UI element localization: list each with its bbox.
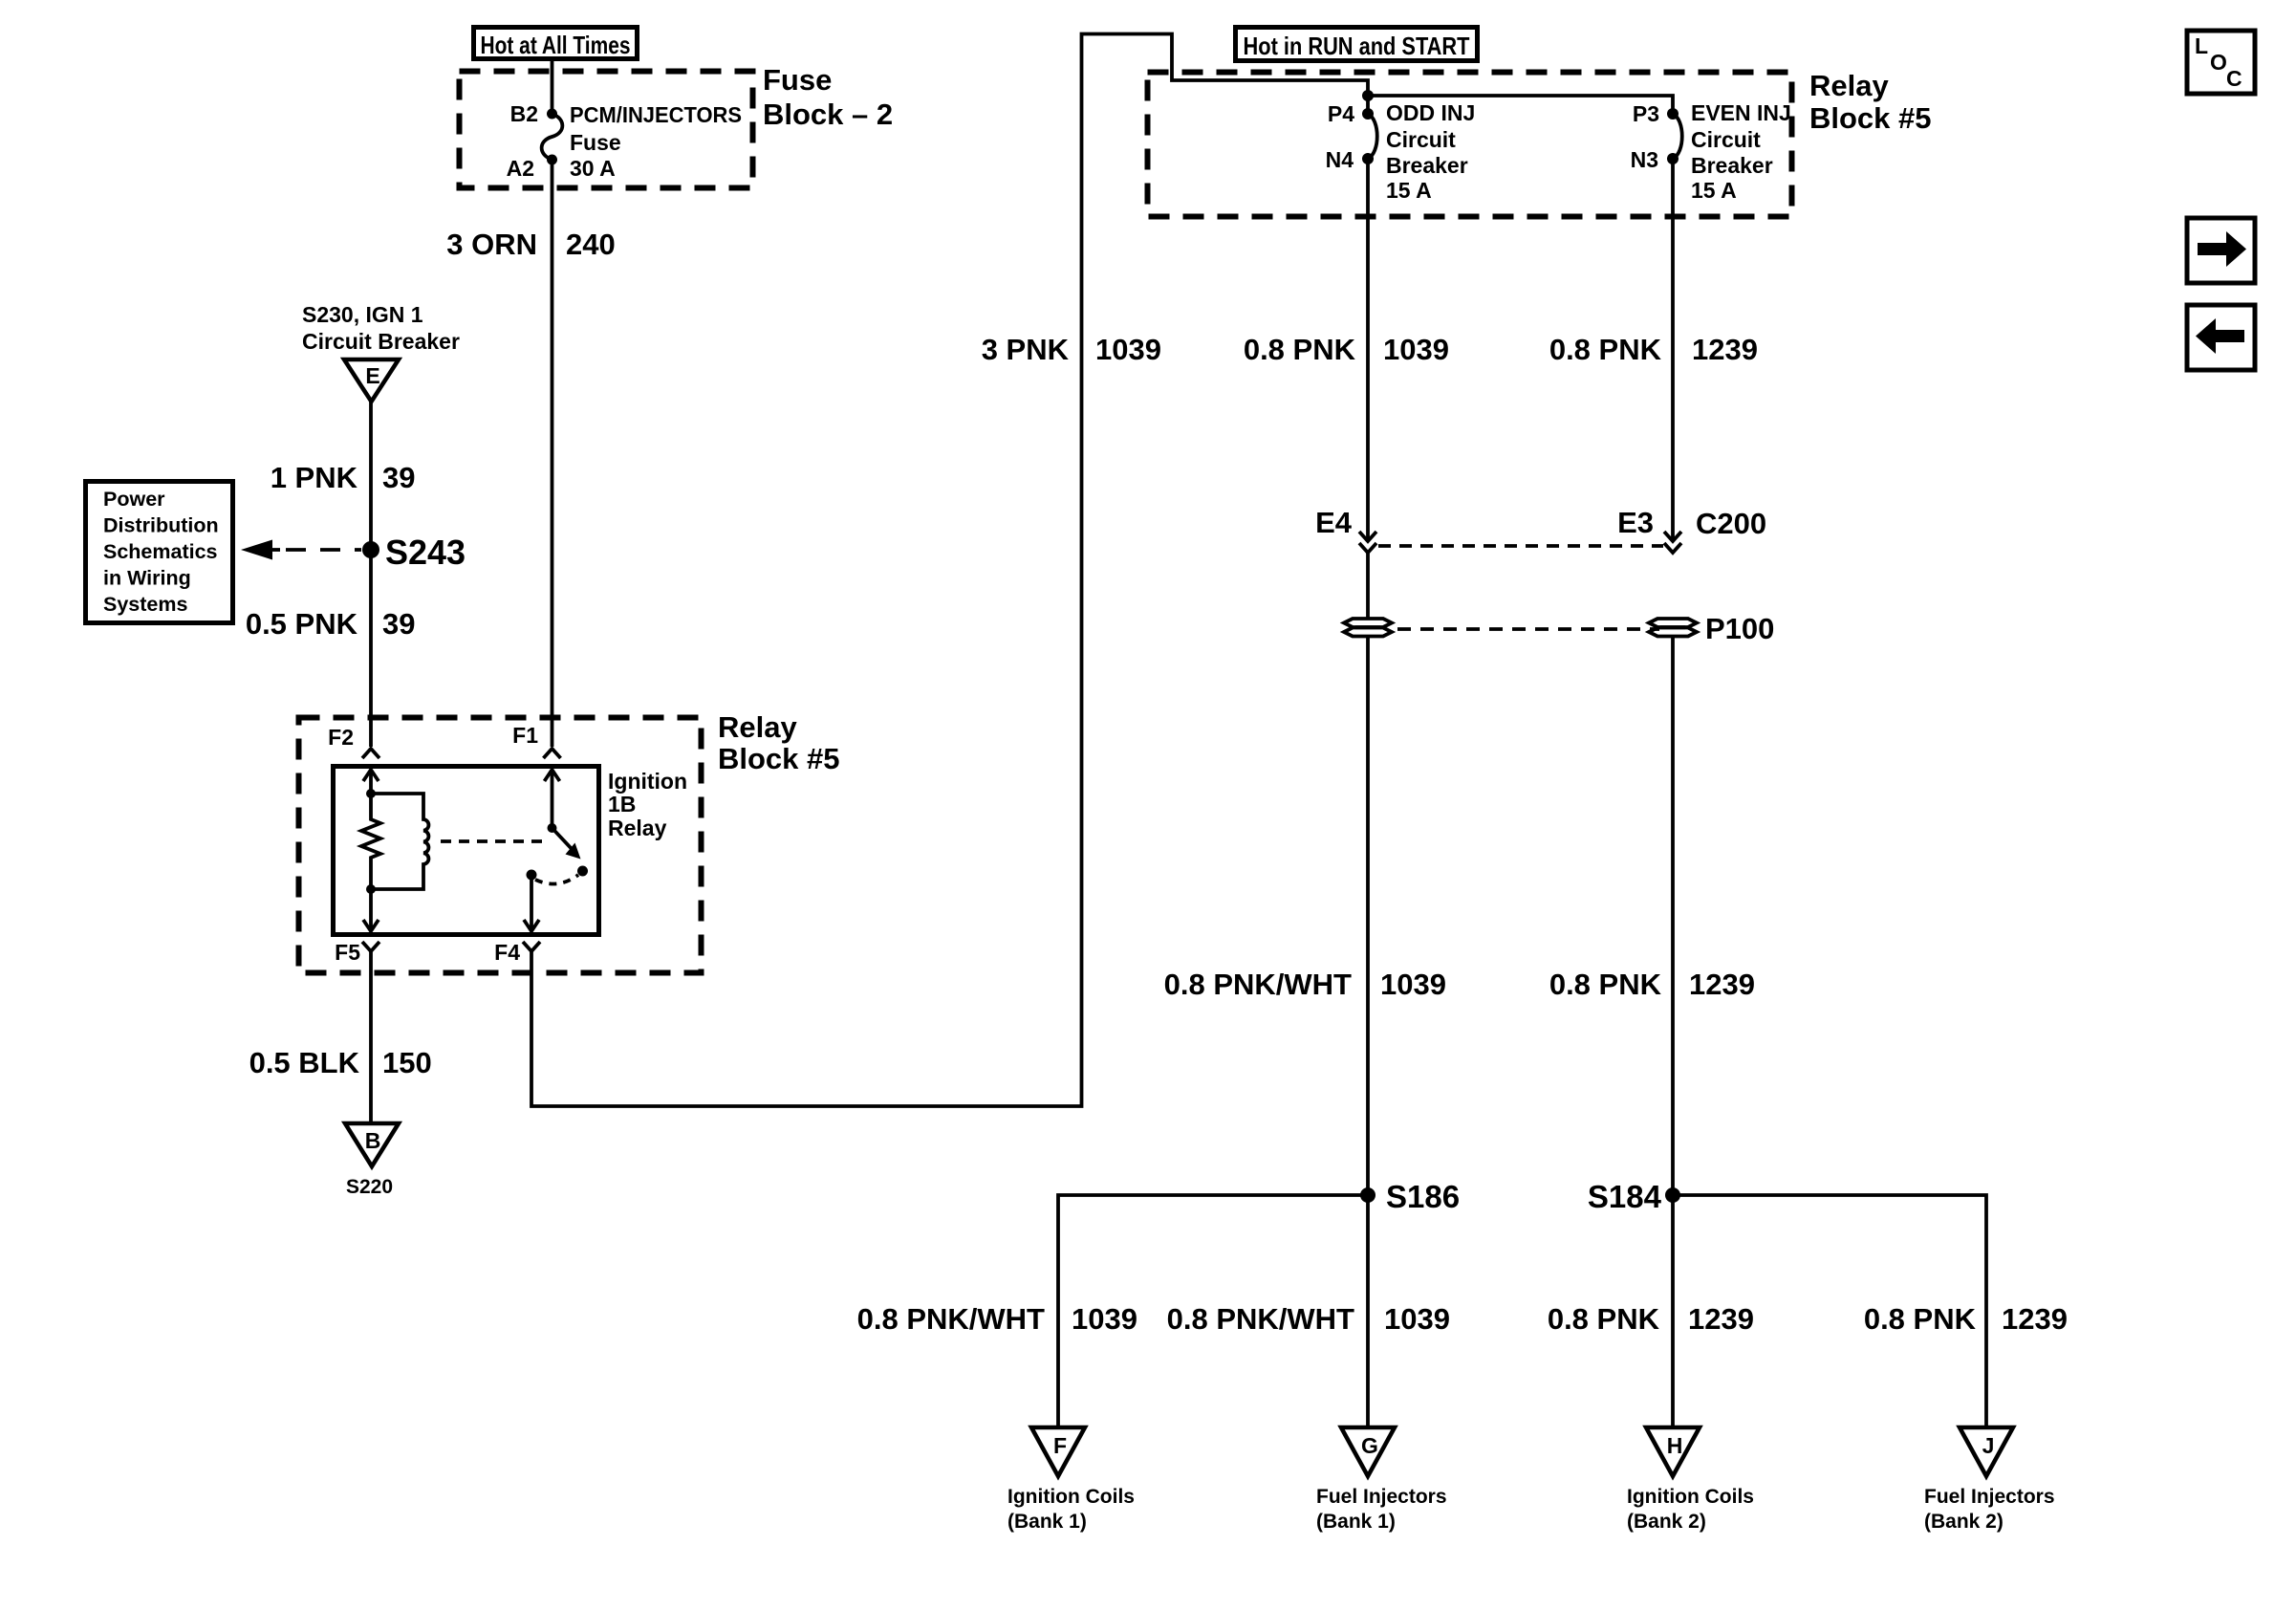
- destination label G: [1316, 1486, 1447, 1533]
- svg-text:Ignition Coils: Ignition Coils: [1007, 1486, 1135, 1508]
- svg-text:0.8 PNK: 0.8 PNK: [1549, 968, 1662, 1001]
- svg-text:Block #5: Block #5: [718, 742, 840, 775]
- fuse value labels: [570, 102, 742, 181]
- dashed connector link C200: [1378, 544, 1663, 548]
- svg-text:Relay: Relay: [608, 816, 667, 840]
- off-page connector triangle F: [1031, 1427, 1085, 1476]
- svg-text:F5: F5: [335, 940, 360, 965]
- svg-text:Breaker: Breaker: [1691, 153, 1773, 178]
- svg-text:J: J: [1982, 1433, 1995, 1458]
- forward navigation arrow box: [2187, 218, 2255, 283]
- svg-text:Distribution: Distribution: [103, 514, 219, 537]
- wire E4 to P100: [1366, 553, 1370, 618]
- svg-text:0.5 PNK: 0.5 PNK: [246, 607, 358, 641]
- svg-text:L: L: [2195, 33, 2208, 58]
- wire S186 to F: [1058, 1195, 1368, 1427]
- label Relay Block #5 (left): [718, 710, 840, 775]
- wire label 0.5 BLK 150: [249, 1046, 432, 1079]
- odd inj circuit breaker: [1362, 108, 1377, 164]
- even inj breaker labels: [1691, 100, 1791, 203]
- off-page connector triangle H: [1646, 1427, 1700, 1476]
- ignition 1B relay inner box: [334, 767, 599, 935]
- svg-text:(Bank 1): (Bank 1): [1316, 1511, 1396, 1533]
- terminal F2: [328, 725, 379, 758]
- wire 0.5 PNK 39 from S243 to F2: [369, 550, 373, 747]
- Power Distribution reference box: [86, 482, 233, 623]
- svg-text:0.8 PNK: 0.8 PNK: [1864, 1302, 1977, 1336]
- svg-text:E3: E3: [1617, 506, 1654, 539]
- svg-text:Circuit: Circuit: [1691, 127, 1761, 152]
- wire P100 to S186: [1366, 637, 1370, 1195]
- terminal F4: [494, 940, 540, 965]
- svg-text:Fuse: Fuse: [570, 130, 621, 155]
- relay switch common (F1 side): [545, 770, 560, 833]
- svg-text:30 A: 30 A: [570, 156, 616, 181]
- label box "Hot in RUN and START": [1236, 28, 1478, 61]
- relay switch output contact (F4 side): [524, 870, 539, 932]
- svg-text:(Bank 2): (Bank 2): [1627, 1511, 1706, 1533]
- svg-text:P3: P3: [1633, 101, 1659, 126]
- svg-text:A2: A2: [507, 156, 534, 181]
- svg-text:Fuel Injectors: Fuel Injectors: [1316, 1486, 1447, 1508]
- wire label 0.8 PNK 1239: [1549, 333, 1758, 366]
- off-page connector triangle B: [345, 1123, 399, 1166]
- off-page connector triangle E: [344, 359, 399, 402]
- svg-text:PCM/INJECTORS: PCM/INJECTORS: [570, 102, 742, 127]
- relay coil output arrow (F5 side): [363, 884, 379, 931]
- wire label 0.8 PNK 1039: [1244, 333, 1449, 366]
- svg-text:Fuel Injectors: Fuel Injectors: [1924, 1486, 2055, 1508]
- svg-text:G: G: [1361, 1433, 1378, 1458]
- svg-text:0.5 BLK: 0.5 BLK: [249, 1046, 360, 1079]
- relay switch travel dashed arc: [535, 875, 578, 883]
- wire N3 to connector E3: [1671, 159, 1675, 541]
- wire S184 to J: [1673, 1195, 1986, 1427]
- wire label 1 PNK 39: [271, 461, 416, 494]
- svg-text:1039: 1039: [1380, 968, 1446, 1001]
- svg-text:1239: 1239: [1688, 1302, 1754, 1336]
- svg-text:39: 39: [382, 461, 415, 494]
- svg-text:1 PNK: 1 PNK: [271, 461, 358, 494]
- svg-text:Block – 2: Block – 2: [763, 98, 893, 131]
- wire P100 to S184: [1671, 637, 1675, 1195]
- fuse F_PCM 30A: [542, 109, 563, 165]
- svg-text:Schematics: Schematics: [103, 540, 218, 563]
- relay block #5 dashed box (left): [299, 718, 702, 973]
- svg-text:S230, IGN 1: S230, IGN 1: [302, 302, 423, 327]
- svg-text:1039: 1039: [1095, 333, 1161, 366]
- splice S243: [362, 533, 466, 572]
- svg-text:(Bank 2): (Bank 2): [1924, 1511, 2004, 1533]
- svg-text:Breaker: Breaker: [1386, 153, 1468, 178]
- svg-text:Ignition: Ignition: [608, 769, 687, 794]
- splice S186: [1360, 1179, 1460, 1214]
- relay coil input arrow (F2 side): [363, 770, 379, 798]
- LOC legend box: [2187, 31, 2255, 94]
- svg-text:E4: E4: [1315, 506, 1353, 539]
- svg-text:S184: S184: [1588, 1179, 1662, 1214]
- wire label 0.8 PNK 1239: [1549, 968, 1755, 1001]
- splice S184: [1588, 1179, 1680, 1214]
- wire S186 to G: [1366, 1195, 1370, 1427]
- wire label 0.8 PNK 1239 (J): [1864, 1302, 2068, 1336]
- svg-text:Block #5: Block #5: [1809, 101, 1932, 135]
- wire label 0.8 PNK/WHT 1039 (G): [1167, 1302, 1450, 1336]
- svg-text:(Bank 1): (Bank 1): [1007, 1511, 1087, 1533]
- label S230 IGN1 circuit breaker: [302, 302, 460, 354]
- wire N4 to connector E4: [1366, 159, 1370, 541]
- wire label 0.8 PNK/WHT 1039: [1164, 968, 1446, 1001]
- label Ignition 1B Relay: [608, 769, 687, 840]
- off-page connector triangle J: [1960, 1427, 2013, 1476]
- dashed link P100: [1397, 627, 1659, 631]
- fuse block 2 dashed box: [460, 72, 753, 188]
- connector C200 terminal E3: [1617, 506, 1681, 553]
- svg-text:Ignition Coils: Ignition Coils: [1627, 1486, 1754, 1508]
- svg-text:240: 240: [566, 228, 616, 261]
- svg-text:H: H: [1667, 1433, 1683, 1458]
- svg-text:Relay: Relay: [1809, 69, 1889, 102]
- label Relay Block #5 (right): [1809, 69, 1932, 135]
- grommet P100 right: [1649, 619, 1697, 637]
- odd inj breaker labels: [1386, 100, 1475, 203]
- wire label 3 ORN 240: [446, 228, 615, 261]
- node junction above P4: [1362, 90, 1374, 101]
- svg-text:1039: 1039: [1072, 1302, 1137, 1336]
- wire from Hot at All Times to B2: [551, 61, 554, 114]
- svg-text:N4: N4: [1326, 147, 1354, 172]
- svg-text:Circuit: Circuit: [1386, 127, 1456, 152]
- svg-text:0.8 PNK: 0.8 PNK: [1548, 1302, 1660, 1336]
- svg-text:S243: S243: [385, 533, 466, 572]
- destination label F: [1007, 1486, 1135, 1533]
- grommet P100 left: [1344, 619, 1392, 637]
- svg-text:in Wiring: in Wiring: [103, 567, 191, 590]
- svg-text:0.8 PNK/WHT: 0.8 PNK/WHT: [1167, 1302, 1354, 1336]
- even inj circuit breaker: [1667, 108, 1682, 164]
- wire label 0.8 PNK 1239 (H): [1548, 1302, 1754, 1336]
- svg-text:0.8 PNK/WHT: 0.8 PNK/WHT: [1164, 968, 1352, 1001]
- svg-text:Power: Power: [103, 488, 165, 511]
- svg-text:B2: B2: [510, 101, 538, 126]
- svg-text:Hot at All Times: Hot at All Times: [481, 31, 631, 59]
- svg-text:150: 150: [382, 1046, 432, 1079]
- relay resistor: [361, 794, 380, 889]
- svg-text:0.8 PNK: 0.8 PNK: [1244, 333, 1356, 366]
- wire 0.5 BLK 150 from F5 to B: [369, 951, 373, 1123]
- off-page connector triangle G: [1341, 1427, 1395, 1476]
- dashed reference arrow to Power Distribution: [241, 540, 361, 560]
- svg-text:F: F: [1053, 1433, 1067, 1458]
- svg-text:EVEN INJ: EVEN INJ: [1691, 100, 1791, 125]
- svg-text:S220: S220: [346, 1176, 393, 1198]
- wire 1 PNK 39 from E to S243: [369, 402, 373, 550]
- svg-text:0.8 PNK: 0.8 PNK: [1549, 333, 1662, 366]
- svg-text:Hot in RUN and START: Hot in RUN and START: [1244, 32, 1470, 60]
- wire label 0.8 PNK/WHT 1039 (F): [857, 1302, 1137, 1336]
- svg-text:1239: 1239: [1689, 968, 1755, 1001]
- svg-text:O: O: [2210, 50, 2227, 75]
- svg-text:Relay: Relay: [718, 710, 797, 744]
- svg-text:F4: F4: [494, 940, 520, 965]
- svg-text:ODD INJ: ODD INJ: [1386, 100, 1475, 125]
- svg-text:39: 39: [382, 607, 415, 641]
- relay switch blade: [552, 828, 589, 877]
- destination label H: [1627, 1486, 1754, 1533]
- svg-text:1239: 1239: [2002, 1302, 2068, 1336]
- svg-text:3 PNK: 3 PNK: [982, 333, 1070, 366]
- label "Fuse Block - 2": [763, 63, 893, 131]
- svg-text:1039: 1039: [1383, 333, 1449, 366]
- svg-text:B: B: [365, 1128, 381, 1153]
- relay coil: [371, 794, 428, 889]
- svg-text:1239: 1239: [1692, 333, 1758, 366]
- svg-text:C200: C200: [1696, 507, 1766, 540]
- terminal F5: [335, 940, 379, 965]
- wire label 0.5 PNK 39: [246, 607, 416, 641]
- wire 3 ORN 240 from A2 to F1: [551, 160, 554, 747]
- svg-text:F2: F2: [328, 725, 354, 750]
- wire junction to P3: [1368, 96, 1673, 114]
- terminal F1: [512, 723, 560, 758]
- label box "Hot at All Times": [474, 28, 638, 60]
- svg-text:15 A: 15 A: [1691, 178, 1737, 203]
- svg-text:F1: F1: [512, 723, 538, 748]
- svg-text:15 A: 15 A: [1386, 178, 1432, 203]
- relay actuation dashed link: [441, 839, 549, 843]
- svg-text:C: C: [2226, 66, 2242, 91]
- wire S184 to H: [1671, 1195, 1675, 1427]
- svg-text:1039: 1039: [1384, 1302, 1450, 1336]
- svg-text:3 ORN: 3 ORN: [446, 228, 537, 261]
- svg-text:N3: N3: [1631, 147, 1658, 172]
- wire label 3 PNK 1039: [982, 333, 1161, 366]
- wire junction to P4: [1366, 96, 1370, 114]
- svg-text:0.8 PNK/WHT: 0.8 PNK/WHT: [857, 1302, 1045, 1336]
- svg-text:Systems: Systems: [103, 593, 187, 616]
- svg-text:S186: S186: [1386, 1179, 1460, 1214]
- svg-text:E: E: [365, 363, 379, 388]
- connector C200 terminal E4: [1315, 506, 1376, 553]
- backward navigation arrow box: [2187, 305, 2255, 370]
- svg-text:Fuse: Fuse: [763, 63, 832, 97]
- wire from F4 up to right section: [531, 34, 1368, 1107]
- relay block #5 dashed box (right): [1148, 73, 1792, 217]
- svg-text:P4: P4: [1328, 101, 1354, 126]
- svg-text:P100: P100: [1705, 612, 1774, 645]
- svg-text:1B: 1B: [608, 792, 636, 816]
- destination label J: [1924, 1486, 2055, 1533]
- svg-text:Circuit Breaker: Circuit Breaker: [302, 329, 460, 354]
